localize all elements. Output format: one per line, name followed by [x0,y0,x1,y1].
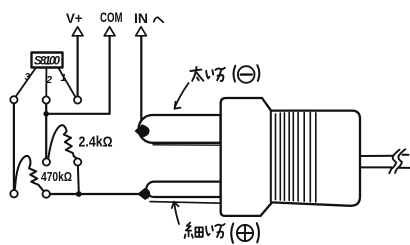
prong top extra stroke [153,144,221,146]
wire R1 to terminal [74,156,77,158]
wire pin3 diagonal [16,68,36,97]
arrow head V+ [72,27,83,36]
junction node bottom [76,191,82,197]
kanji hosoi (thin) [185,223,203,238]
prong bottom extra stroke [150,202,221,204]
sine symbol after IN [154,17,164,22]
resistor R1 2.4k curve lead [48,125,66,158]
kana i [206,70,213,78]
wire pin3 down left column [13,103,15,190]
paren open (minus) [233,66,235,82]
solder blob top prong [136,125,149,137]
kanji hou (bottom) [215,224,224,238]
svg-text:470kΩ: 470kΩ [41,169,72,184]
terminal circle R1 bottom [74,158,81,165]
terminal circle pin2 [43,96,50,103]
circled minus symbol [238,66,255,83]
plug body front/ridge divider [270,111,272,202]
arrow head COM [104,27,115,36]
IC box S8100 [32,53,63,68]
resistor R2 470k curve lead [15,156,30,189]
svg-text:2.4kΩ: 2.4kΩ [79,135,113,151]
wire bottom horizontal to plug [50,193,139,195]
kanji futoi (thick) [190,67,203,81]
plug prong thin (bottom) [146,182,220,197]
terminal circle R2 bottom [43,190,50,197]
wire V+ vertical [76,36,78,96]
plug prong thick (top) [139,115,221,143]
cord break symbol [389,150,399,174]
terminal circle mid [43,158,50,165]
plug body front section [221,98,360,216]
circled plus symbol [237,225,253,241]
annotation arrow to thin prong [174,203,179,225]
wire pin2 junction down [45,104,47,159]
arrow head IN [136,27,147,36]
svg-text:S8100: S8100 [34,56,61,68]
paren open (plus) [231,224,233,243]
cord bottom line [360,166,410,169]
junction node pin2/COM [43,111,49,117]
wire R1 bottom down [77,166,80,194]
solder blob bottom prong [139,189,150,199]
ridge lines [275,114,277,200]
resistor R2 470k zigzag [29,165,38,185]
wire COM vertical and to junction [50,36,110,114]
cord top line [360,155,409,156]
paren close (minus) [257,65,259,81]
kana i (bottom) [206,226,213,235]
wire R2 to terminal [38,185,43,191]
svg-text:V+: V+ [66,11,83,26]
wire pin1 diagonal [59,68,76,97]
paren close (plus) [257,223,259,242]
resistor R1 2.4k zigzag [64,132,74,157]
svg-text:COM: COM [100,10,123,25]
wire pin2 vertical [45,68,47,96]
kanji hou (side) [215,68,224,81]
wire IN vertical [140,36,142,127]
svg-text:IN: IN [134,11,148,26]
terminal circle pin1 [74,96,81,103]
annotation arrow to thick prong [175,83,189,108]
terminal circle pin3 [10,96,17,103]
terminal circle bottom-left [10,190,17,197]
